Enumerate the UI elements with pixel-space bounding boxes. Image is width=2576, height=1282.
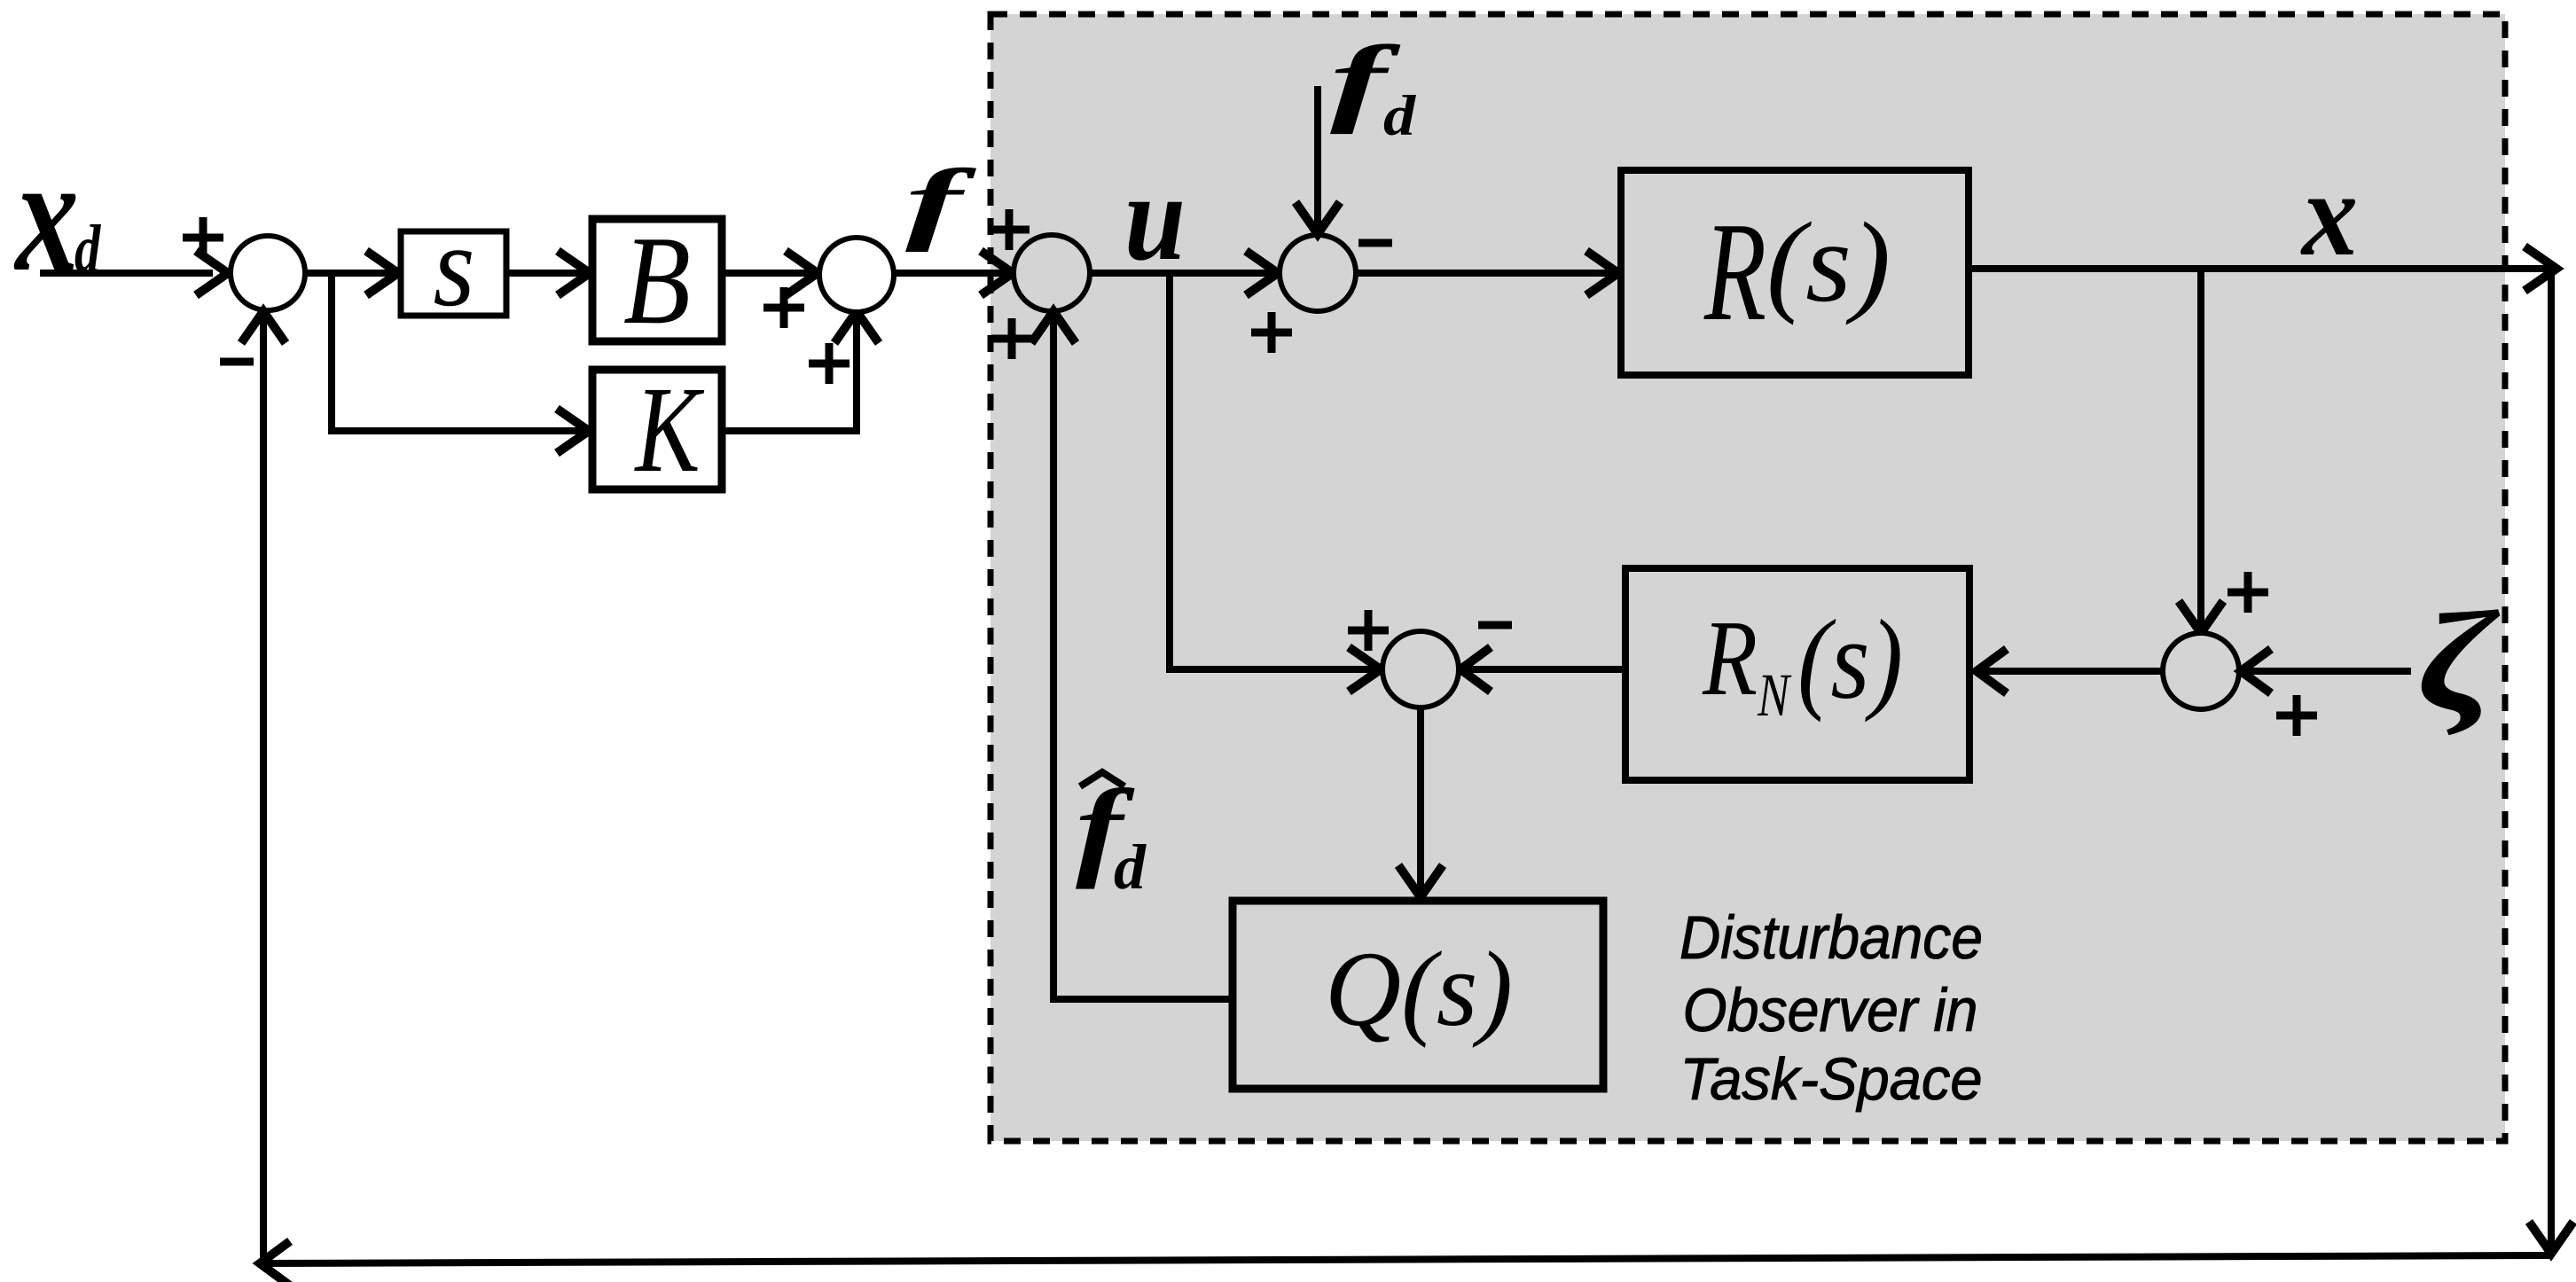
wire: x_d input line <box>40 270 213 277</box>
wire: right side feedback down <box>2548 269 2555 1250</box>
wire: u branch down to S5 <box>1170 273 1376 669</box>
wire: bottom feedback line <box>260 1255 2552 1263</box>
svg-text:d: d <box>1114 832 1147 903</box>
S6 plus bottom-right <box>2276 695 2317 736</box>
svg-text:R: R <box>1702 598 1758 718</box>
svg-text:s: s <box>434 202 475 331</box>
svg-text:d: d <box>1383 83 1417 147</box>
svg-text:Q(s): Q(s) <box>1325 930 1513 1049</box>
node f_d label <box>1330 26 1400 135</box>
wire: K to S2 bottom <box>722 316 857 431</box>
S3 plus top-left <box>989 209 1030 250</box>
svg-text:ζ: ζ <box>2417 582 2500 740</box>
svg-text:d: d <box>74 212 101 286</box>
node zeta label <box>2417 582 2500 740</box>
svg-text:Task-Space: Task-Space <box>1680 1046 1983 1113</box>
svg-text:Observer in: Observer in <box>1683 976 1978 1044</box>
svg-text:x: x <box>2300 148 2358 281</box>
wire: RN(s) to S5 <box>1463 666 1625 673</box>
wire: R(s) output to right edge <box>1969 265 2550 272</box>
block R(s) robot plant <box>1621 170 1969 375</box>
wire: zeta input <box>2243 668 2411 675</box>
S6 plus top-right <box>2228 572 2268 613</box>
block K <box>592 370 722 489</box>
S3 plus bottom-left <box>991 318 1032 359</box>
S4 plus sign <box>1251 312 1292 353</box>
summing junction S6 <box>2163 633 2239 709</box>
disturbance observer region (gray dashed box) <box>990 14 2505 1141</box>
wire: s to B <box>506 270 585 277</box>
wire: S2 to S3, f label <box>894 270 1011 277</box>
wire: S4 to R(s) <box>1356 270 1614 277</box>
S4 minus sign <box>1358 239 1392 247</box>
svg-text:R: R <box>1703 192 1766 350</box>
wire: B to S2 <box>722 270 816 277</box>
S1 minus sign <box>220 358 254 366</box>
block Q(s) filter <box>1233 901 1603 1089</box>
S2 plus sign (B input) <box>763 287 804 328</box>
node x_d label <box>13 122 79 305</box>
S2 bottom plus sign <box>809 343 850 384</box>
svg-text:Disturbance: Disturbance <box>1679 903 1983 972</box>
node f_d hat label <box>1080 772 1124 786</box>
block RN(s) nominal model inverse <box>1625 568 1969 780</box>
S5 minus sign <box>1478 621 1512 629</box>
block s <box>401 231 506 316</box>
svg-text:N: N <box>1757 661 1792 729</box>
wire: S3 to S4 with branch down <box>1090 270 1274 277</box>
svg-text:B: B <box>623 210 691 350</box>
summing junction S3 <box>1014 235 1090 311</box>
wire: Q(s) output feedback to S3 <box>1053 316 1233 999</box>
S1 plus sign <box>183 217 223 258</box>
svg-text:u: u <box>1124 149 1186 286</box>
svg-text:x: x <box>13 122 79 305</box>
S5 plus sign <box>1348 610 1389 651</box>
svg-text:(s): (s) <box>1766 199 1891 325</box>
wire: S1 to s block with branch <box>305 270 401 277</box>
wire: S5 down to Q(s) <box>1417 707 1424 894</box>
wire: f_d input arrow <box>1314 86 1321 231</box>
wire: branch down to K <box>332 273 584 431</box>
svg-text:(s): (s) <box>1797 597 1903 723</box>
summing junction S5 <box>1382 631 1459 707</box>
block B <box>592 219 722 341</box>
summing junction S4 <box>1280 235 1356 311</box>
wire: feedback from S1 down the left side <box>260 310 267 1262</box>
summing junction S2 <box>819 238 894 312</box>
svg-text:K: K <box>634 362 705 498</box>
wire: branch down to S6 <box>2197 269 2204 629</box>
node f label <box>905 151 977 253</box>
summing junction S1 <box>231 236 305 310</box>
wire: S6 to RN(s) <box>1979 668 2163 675</box>
